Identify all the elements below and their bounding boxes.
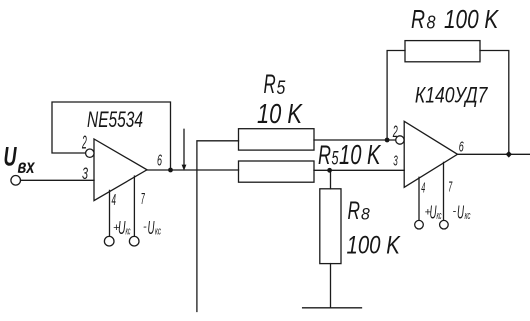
- svg-text:-: -: [143, 221, 147, 233]
- svg-text:вх: вх: [18, 157, 36, 178]
- svg-text:R: R: [318, 140, 331, 170]
- svg-text:7: 7: [448, 178, 452, 195]
- svg-text:7: 7: [141, 191, 145, 208]
- svg-text:R: R: [411, 4, 425, 34]
- svg-text:4: 4: [112, 192, 117, 209]
- svg-text:-: -: [453, 206, 457, 218]
- svg-text:NE5534: NE5534: [87, 107, 143, 132]
- svg-text:4: 4: [421, 180, 425, 197]
- svg-text:8: 8: [427, 12, 436, 32]
- svg-text:8: 8: [361, 204, 370, 223]
- svg-text:кс: кс: [437, 210, 442, 222]
- svg-text:кс: кс: [465, 210, 471, 222]
- svg-text:кс: кс: [126, 226, 131, 238]
- svg-text:U: U: [457, 202, 465, 222]
- svg-text:5: 5: [277, 78, 286, 99]
- svg-text:6: 6: [459, 138, 464, 155]
- svg-text:3: 3: [393, 153, 398, 170]
- svg-text:5: 5: [332, 149, 339, 170]
- svg-text:К140УД7: К140УД7: [415, 82, 488, 107]
- svg-text:100 K: 100 K: [444, 4, 500, 34]
- svg-text:2: 2: [392, 122, 398, 141]
- svg-text:кс: кс: [155, 226, 161, 238]
- svg-text:10 K: 10 K: [257, 98, 303, 129]
- svg-text:100 K: 100 K: [347, 232, 401, 260]
- svg-text:6: 6: [157, 152, 162, 169]
- svg-text:2: 2: [82, 132, 87, 152]
- svg-text:3: 3: [82, 164, 88, 183]
- svg-text:U: U: [4, 141, 18, 171]
- svg-text:R: R: [348, 197, 361, 225]
- svg-text:R: R: [264, 69, 276, 99]
- svg-text:U: U: [148, 217, 155, 238]
- svg-text:10 K: 10 K: [339, 139, 381, 170]
